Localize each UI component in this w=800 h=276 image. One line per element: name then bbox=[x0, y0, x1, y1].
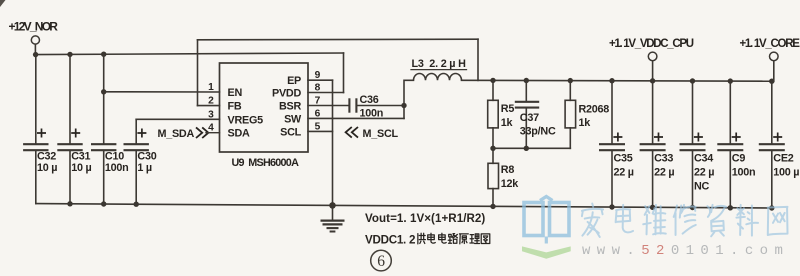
svg-text:C31: C31 bbox=[71, 151, 90, 163]
junction EN branch bbox=[101, 89, 106, 94]
svg-text:100 µ: 100 µ bbox=[773, 167, 799, 179]
svg-text:R8: R8 bbox=[501, 164, 515, 176]
capacitor C9 bbox=[717, 143, 743, 145]
wire +1.1V output rail bbox=[462, 79, 772, 82]
svg-text:NC: NC bbox=[694, 181, 710, 193]
svg-text:C33: C33 bbox=[654, 153, 673, 165]
wire FB sense down to output bbox=[477, 39, 479, 80]
wire C37 bottom bbox=[525, 109, 527, 149]
wire C35 bottom bbox=[611, 151, 613, 207]
junction C36/SW bbox=[401, 103, 406, 108]
terminal +12V_NOR bbox=[31, 36, 39, 44]
junction CE2/CORE bbox=[769, 79, 774, 84]
junction ladder gnd bbox=[329, 202, 336, 209]
svg-text:www.520101.com: www.520101.com bbox=[582, 243, 789, 259]
wire pin9 stub bbox=[308, 79, 333, 81]
capacitor C32 bbox=[23, 143, 48, 145]
wire VREG5 to C30 bbox=[136, 118, 219, 120]
svg-text:22 µ: 22 µ bbox=[614, 167, 634, 179]
wire C32 top bbox=[35, 55, 37, 144]
junction R2068 bbox=[568, 78, 573, 83]
wire C9 top bbox=[729, 81, 731, 143]
svg-text:3: 3 bbox=[208, 109, 214, 120]
svg-text:1k: 1k bbox=[501, 117, 514, 129]
terminal +1.1V_CORE bbox=[770, 52, 779, 61]
wire SDA stub bbox=[206, 132, 220, 134]
watermark book logo ribbon bbox=[522, 246, 571, 258]
wire C33 bottom bbox=[652, 151, 654, 207]
capacitor CE2 bbox=[759, 143, 785, 145]
svg-text:C34: C34 bbox=[694, 153, 713, 165]
wire FB sense top bbox=[198, 38, 479, 41]
wire C35 top bbox=[611, 81, 613, 143]
svg-text:+1. 1V_VDDC_CPU: +1. 1V_VDDC_CPU bbox=[609, 38, 694, 50]
wire pin7 stub bbox=[308, 105, 333, 107]
wire BSR to C36 bbox=[333, 105, 349, 107]
wire EP ladder to ground bbox=[332, 80, 334, 205]
junction at C31 bbox=[67, 52, 72, 57]
capacitor C10 bbox=[91, 143, 116, 145]
wire +12V rail bbox=[35, 53, 343, 55]
wire R5 top bbox=[492, 80, 494, 100]
resistor R5 bbox=[488, 100, 499, 128]
wire CE2 top bbox=[771, 81, 773, 143]
junction C30 gnd bbox=[134, 202, 139, 207]
wire R2068 top bbox=[569, 81, 571, 101]
wire C34 bottom bbox=[692, 151, 694, 207]
resistor R8 bbox=[488, 163, 499, 188]
wire C31 bottom bbox=[69, 151, 71, 204]
svg-text:C35: C35 bbox=[614, 153, 633, 165]
svg-text:22 µ: 22 µ bbox=[654, 167, 674, 179]
svg-text:6: 6 bbox=[377, 253, 385, 270]
svg-text:10 µ: 10 µ bbox=[71, 162, 91, 174]
wire SW bbox=[333, 117, 405, 119]
junction R5 bbox=[490, 78, 495, 83]
wire ground rail bbox=[36, 204, 772, 208]
junction CE2 gnd bbox=[769, 205, 774, 210]
wire SW up to L3 bbox=[403, 80, 405, 118]
capacitor C30 bbox=[124, 143, 149, 145]
junction C9 bbox=[728, 78, 733, 83]
svg-text:SCL: SCL bbox=[280, 127, 301, 139]
wire CORE terminal bbox=[773, 61, 775, 81]
junction C35 gnd bbox=[609, 204, 614, 209]
svg-text:1: 1 bbox=[208, 82, 214, 93]
svg-text:M_SCL: M_SCL bbox=[363, 128, 399, 140]
arrow M_SDA bbox=[196, 127, 208, 138]
wire C36 to SW node bbox=[358, 105, 405, 107]
svg-text:BSR: BSR bbox=[279, 101, 301, 113]
svg-text:C30: C30 bbox=[137, 151, 156, 163]
junction C34 bbox=[690, 78, 695, 83]
ground bbox=[332, 205, 334, 219]
wire C34 top bbox=[692, 81, 694, 143]
svg-text:R2068: R2068 bbox=[579, 103, 610, 115]
wire CE2 bottom bbox=[771, 151, 773, 208]
watermark text jiadian-weixiu-ziliao-wang bbox=[582, 204, 603, 238]
junction C9 gnd bbox=[728, 205, 733, 210]
svg-text:1 µ: 1 µ bbox=[137, 162, 152, 174]
capacitor C36 bbox=[348, 98, 350, 112]
svg-text:VREG5: VREG5 bbox=[228, 114, 264, 126]
wire R8 bottom bbox=[492, 189, 494, 207]
wire C37 top bbox=[525, 81, 527, 102]
capacitor C31 bbox=[57, 143, 82, 145]
wire terminal stub bbox=[34, 44, 36, 54]
svg-text:VDDC1. 2: VDDC1. 2 bbox=[365, 234, 415, 247]
junction C37 bbox=[524, 78, 529, 83]
junction C33/CPU bbox=[650, 78, 655, 83]
terminal +1.1V_VDDC_CPU bbox=[648, 52, 657, 61]
svg-text:L3 2. 2 µ H: L3 2. 2 µ H bbox=[412, 58, 467, 70]
junction C10 gnd bbox=[101, 201, 106, 206]
svg-text:C10: C10 bbox=[105, 151, 124, 163]
wire CPU terminal bbox=[652, 61, 654, 81]
svg-text:R5: R5 bbox=[501, 103, 515, 115]
wire EN bbox=[104, 91, 220, 93]
svg-text:C37: C37 bbox=[520, 112, 539, 124]
svg-text:4: 4 bbox=[208, 123, 214, 134]
svg-text:C9: C9 bbox=[732, 153, 746, 165]
watermark book logo pages bbox=[524, 197, 569, 244]
svg-text:FB: FB bbox=[228, 101, 242, 113]
wire PVDD up to rail bbox=[343, 53, 345, 93]
wire C31 top bbox=[69, 54, 71, 143]
svg-text:PVDD: PVDD bbox=[272, 88, 301, 100]
capacitor C34 bbox=[680, 143, 706, 145]
junction at C32 bbox=[33, 52, 38, 57]
wire C9 bottom bbox=[729, 151, 731, 208]
svg-text:U9 MSH6000A: U9 MSH6000A bbox=[232, 157, 300, 169]
svg-text:2: 2 bbox=[208, 96, 214, 107]
resistor R2068 bbox=[565, 100, 576, 128]
svg-text:100n: 100n bbox=[105, 162, 129, 174]
junction R8 gnd bbox=[490, 204, 495, 209]
junction C37 node bbox=[524, 146, 529, 151]
junction C34 gnd bbox=[690, 205, 695, 210]
svg-text:EP: EP bbox=[287, 75, 301, 87]
junction R5/R8 bbox=[490, 146, 495, 151]
svg-text:22 µ: 22 µ bbox=[694, 167, 714, 179]
inductor L3 bbox=[404, 74, 462, 81]
svg-text:CE2: CE2 bbox=[773, 153, 793, 165]
svg-text:12k: 12k bbox=[501, 178, 520, 190]
wire R2068 bottom bbox=[569, 128, 571, 148]
arrow M_SCL bbox=[346, 127, 358, 138]
svg-text:10 µ: 10 µ bbox=[37, 162, 57, 174]
svg-text:33p/NC: 33p/NC bbox=[520, 125, 556, 137]
svg-text:+12V_NOR: +12V_NOR bbox=[9, 20, 59, 34]
wire FB to pin2 bbox=[198, 105, 220, 107]
svg-text:Vout=1. 1V×(1+R1/R2): Vout=1. 1V×(1+R1/R2) bbox=[365, 212, 485, 225]
junction C31 gnd bbox=[67, 201, 72, 206]
wire C10 top bbox=[103, 54, 105, 143]
scan artifact top-left corner bbox=[0, 0, 6, 7]
svg-text:+1. 1V_CORE: +1. 1V_CORE bbox=[740, 38, 800, 50]
svg-text:C32: C32 bbox=[37, 151, 56, 163]
inductor L3 underline bbox=[411, 69, 467, 71]
wire R8 top bbox=[492, 148, 494, 163]
wire C32 bottom bbox=[35, 151, 37, 203]
svg-text:EN: EN bbox=[228, 87, 243, 99]
wire pin8 stub bbox=[308, 92, 344, 94]
junction C33 gnd bbox=[650, 205, 655, 210]
svg-text:SW: SW bbox=[284, 114, 302, 126]
label caption CJK gongdian-dianlu-yuanlitu (supply circuit schematic) bbox=[418, 233, 426, 244]
svg-text:C36: C36 bbox=[360, 94, 379, 106]
junction C35 bbox=[609, 78, 614, 83]
op-amp U1 IC U9 MSH6000A body bbox=[220, 63, 309, 152]
svg-text:1k: 1k bbox=[579, 117, 592, 129]
label circled 6 bbox=[371, 250, 392, 271]
wire pin5 stub bbox=[308, 130, 333, 132]
wire C10 bottom bbox=[103, 151, 105, 204]
capacitor C37 bbox=[515, 101, 539, 103]
wire C30 top bbox=[135, 119, 137, 143]
wire C30 bottom bbox=[135, 151, 137, 204]
capacitor C35 bbox=[599, 143, 625, 145]
junction at C10/EN bbox=[101, 52, 106, 57]
svg-text:M_SDA: M_SDA bbox=[157, 128, 194, 140]
wire C33 top bbox=[652, 81, 654, 143]
svg-text:9: 9 bbox=[315, 70, 321, 81]
capacitor C33 bbox=[640, 143, 666, 145]
wire pin6 stub bbox=[308, 117, 333, 119]
svg-text:SDA: SDA bbox=[228, 128, 250, 140]
svg-text:100n: 100n bbox=[732, 167, 756, 179]
wire R5 bottom bbox=[492, 128, 494, 148]
wire feedback node bbox=[493, 147, 570, 149]
wire FB vertical bbox=[197, 40, 199, 106]
